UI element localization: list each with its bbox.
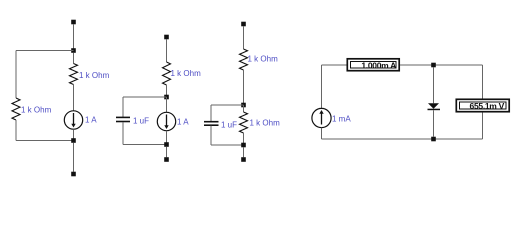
node junction (circuit 3 bottom) bbox=[241, 143, 246, 148]
resistor R2 1 k Ohm (right branch circuit 1) bbox=[70, 64, 78, 85]
wire diode branch upper bbox=[433, 67, 435, 103]
svg-text:1 A: 1 A bbox=[85, 116, 97, 125]
wire bbox=[211, 144, 244, 146]
wire bbox=[15, 51, 17, 99]
terminal top (circuit 1) bbox=[71, 20, 76, 25]
svg-text:1 k Ohm: 1 k Ohm bbox=[79, 71, 110, 80]
node junction (bottom, diode branch) bbox=[431, 137, 436, 142]
current source I3 1 mA bbox=[312, 108, 331, 127]
wire bbox=[482, 113, 484, 140]
terminal top (circuit 2) bbox=[164, 35, 169, 40]
node junction (top, diode branch) bbox=[431, 63, 436, 68]
resistor R1 1 k Ohm (left branch circuit 1) bbox=[12, 98, 20, 120]
wire bbox=[243, 147, 245, 157]
svg-text:1.000m A: 1.000m A bbox=[361, 60, 396, 70]
wire bbox=[243, 26, 245, 49]
node junction (circuit 1 top) bbox=[71, 48, 76, 53]
svg-text:1 uF: 1 uF bbox=[133, 116, 149, 125]
terminal bottom (circuit 2) bbox=[164, 157, 169, 162]
svg-text:1 uF: 1 uF bbox=[221, 121, 237, 130]
svg-text:1 k Ohm: 1 k Ohm bbox=[250, 118, 281, 127]
resistor R3 1 k Ohm (circuit 2) bbox=[163, 62, 171, 85]
wire bbox=[73, 143, 75, 172]
wire bbox=[123, 96, 167, 98]
svg-text:1 k Ohm: 1 k Ohm bbox=[21, 105, 52, 114]
wire bbox=[122, 97, 124, 117]
resistor R5 1 k Ohm (circuit 3 bottom) bbox=[240, 112, 248, 133]
wire bbox=[166, 131, 168, 145]
wire bbox=[16, 50, 74, 52]
node junction (circuit 2 top) bbox=[164, 95, 169, 100]
wire bbox=[166, 147, 168, 158]
capacitor C1 1 uF (circuit 2) bbox=[116, 116, 130, 118]
wire bbox=[166, 85, 168, 97]
wire bbox=[15, 120, 17, 141]
node junction (circuit 2 bottom) bbox=[164, 142, 169, 147]
terminal top (circuit 3) bbox=[241, 22, 246, 27]
svg-text:1 k Ohm: 1 k Ohm bbox=[171, 69, 202, 78]
wire bbox=[210, 126, 212, 145]
wire bottom bbox=[322, 138, 483, 140]
wire bbox=[210, 105, 212, 121]
wire left vertical bbox=[321, 65, 323, 108]
wire bbox=[243, 133, 245, 145]
terminal bottom (circuit 1) bbox=[71, 172, 76, 177]
wire diode branch lower bbox=[433, 110, 435, 137]
svg-text:1 mA: 1 mA bbox=[332, 114, 351, 123]
wire bbox=[73, 24, 75, 50]
current source I2 (circuit 2) bbox=[157, 112, 175, 130]
wire bbox=[122, 122, 124, 145]
wire bbox=[211, 104, 244, 106]
wire bbox=[166, 97, 168, 112]
svg-text:1 k Ohm: 1 k Ohm bbox=[248, 55, 279, 64]
wire bbox=[73, 85, 75, 111]
current source I1 (circuit 1) bbox=[64, 111, 82, 129]
node junction (circuit 1 bottom) bbox=[71, 138, 76, 143]
terminal bottom (circuit 3) bbox=[241, 157, 246, 162]
wire bbox=[16, 140, 74, 142]
wire bbox=[400, 64, 483, 66]
svg-text:1 A: 1 A bbox=[177, 117, 189, 126]
wire bbox=[73, 53, 75, 64]
wire bbox=[123, 144, 167, 146]
wire bbox=[73, 129, 75, 140]
wire top left bbox=[322, 64, 347, 66]
node junction (circuit 3 top) bbox=[241, 103, 246, 108]
svg-text:655.1m V: 655.1m V bbox=[470, 101, 505, 111]
resistor R4 1 k Ohm (circuit 3 top) bbox=[240, 49, 248, 70]
voltmeter M2 box bbox=[456, 99, 509, 111]
wire bbox=[166, 39, 168, 62]
capacitor C2 1 uF (circuit 3) bbox=[204, 121, 219, 123]
ammeter M1 box bbox=[347, 59, 399, 71]
wire right vertical bbox=[482, 65, 484, 99]
wire bbox=[243, 70, 245, 105]
wire bbox=[243, 105, 245, 112]
diode D1 bbox=[428, 103, 439, 108]
wire bbox=[321, 128, 323, 139]
